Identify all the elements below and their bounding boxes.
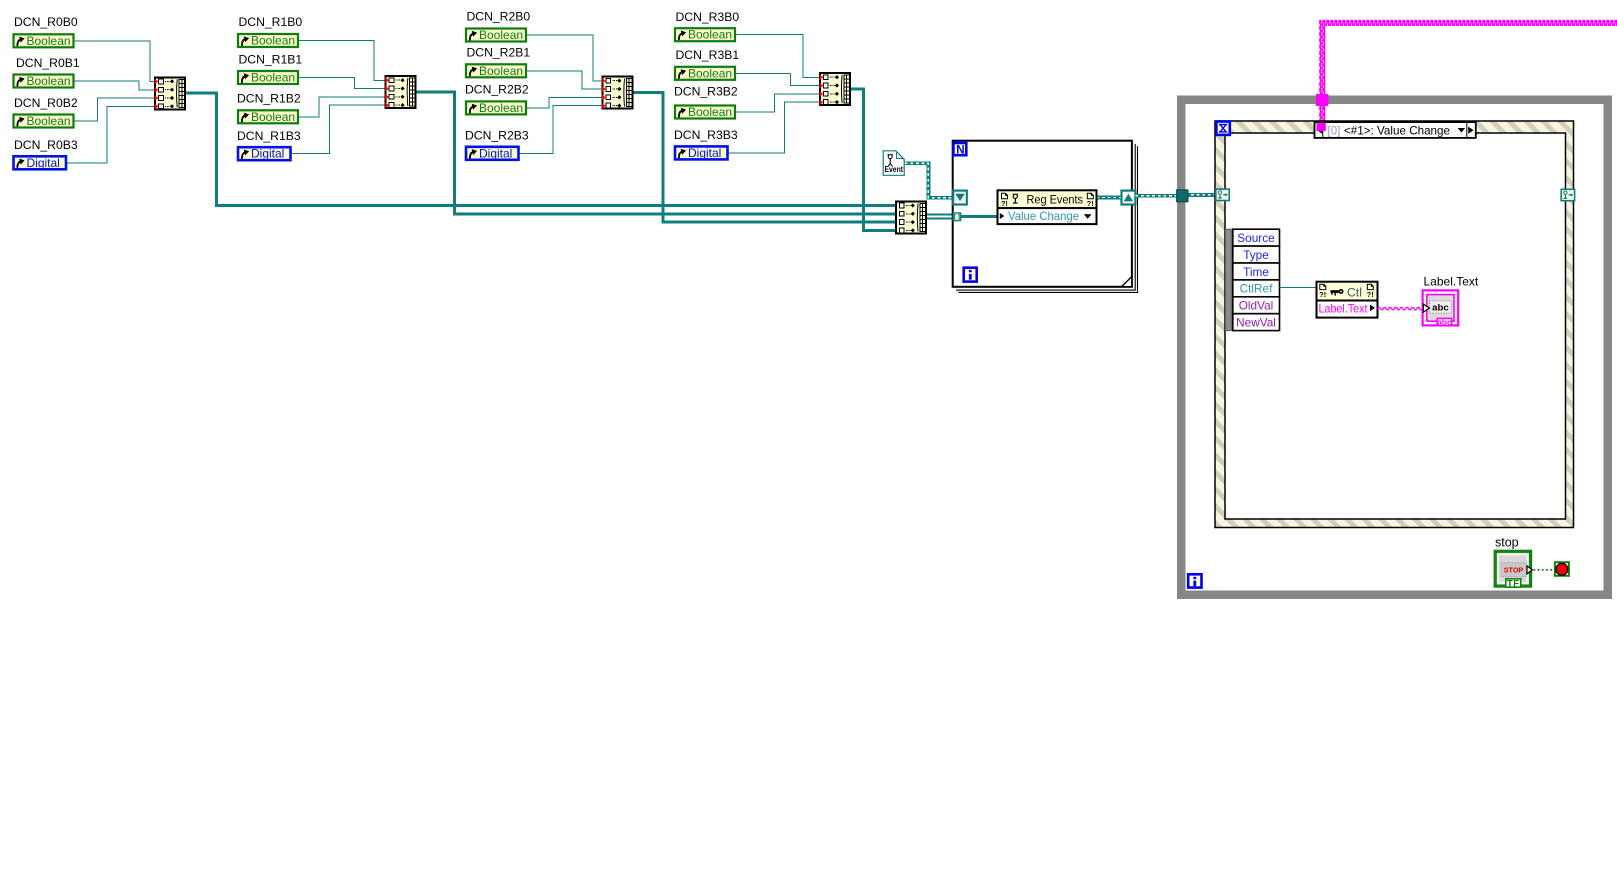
- svg-text:Time: Time: [1243, 265, 1269, 279]
- svg-text:Boolean: Boolean: [27, 74, 71, 88]
- digital terminal DCN_R2B3: [466, 146, 519, 160]
- boolean terminal DCN_R3B0: [675, 28, 735, 42]
- svg-text:<#1>: Value Change: <#1>: Value Change: [1344, 124, 1450, 137]
- svg-text:STOP: STOP: [1504, 567, 1524, 574]
- svg-text:OldVal: OldVal: [1239, 299, 1274, 313]
- for loop i terminal: [964, 268, 977, 282]
- svg-text:[0]: [0]: [1328, 124, 1341, 137]
- boolean terminal DCN_R2B2: [466, 101, 526, 115]
- svg-text:abc: abc: [1437, 317, 1452, 327]
- svg-text:NewVal: NewVal: [1236, 316, 1276, 330]
- svg-text:stop: stop: [1495, 536, 1519, 550]
- while loop i terminal: [1188, 574, 1201, 587]
- svg-text:DCN_R1B0: DCN_R1B0: [239, 15, 303, 29]
- svg-text:CtlRef: CtlRef: [1240, 282, 1273, 296]
- wire DCN_R0B1 to build array 1: [74, 81, 155, 90]
- dynamic event terminal right: [1561, 189, 1574, 200]
- wire DCN_R1B3 to build array 2: [291, 105, 385, 154]
- wire DCN_R3B2 to build array 4: [735, 94, 819, 112]
- dynamic event terminal left: [1216, 189, 1229, 200]
- property node Ctl: [1317, 282, 1378, 318]
- wire DCN_R3B1 to build array 4: [735, 73, 819, 85]
- wire CtlRef to property node: [1280, 287, 1317, 289]
- wire DCN_R1B0 to build array 2: [298, 41, 385, 81]
- svg-text:DCN_R3B1: DCN_R3B1: [676, 48, 740, 62]
- svg-text:Reg Events: Reg Events: [1027, 193, 1084, 207]
- svg-text:DCN_R2B1: DCN_R2B1: [467, 46, 531, 60]
- svg-text:Boolean: Boolean: [251, 110, 295, 124]
- wire array tunnel to reg events: [961, 215, 998, 218]
- svg-text:Boolean: Boolean: [251, 71, 295, 85]
- svg-text:DCN_R1B1: DCN_R1B1: [239, 53, 303, 67]
- wire DCN_R2B1 to build array 3: [526, 71, 601, 89]
- boolean terminal DCN_R0B2: [14, 114, 74, 128]
- svg-text:DCN_R3B2: DCN_R3B2: [674, 85, 738, 99]
- for loop stacked frame: [953, 141, 1138, 293]
- tunnel event refnum out (up arrow): [1122, 191, 1136, 205]
- svg-text:DCN_R2B3: DCN_R2B3: [465, 129, 529, 143]
- wire DCN_R1B2 to build array 2: [298, 97, 385, 117]
- svg-text:Boolean: Boolean: [688, 105, 732, 119]
- for loop N terminal: [953, 143, 966, 156]
- svg-text:Digital: Digital: [251, 147, 284, 161]
- wire array 3 bus: [633, 93, 895, 223]
- wire dashed reg events out: [1097, 196, 1122, 200]
- boolean terminal DCN_R1B0: [238, 34, 298, 48]
- boolean terminal DCN_R3B2: [675, 105, 735, 119]
- build array node 1: [155, 77, 185, 109]
- event data node: [1225, 229, 1279, 330]
- svg-text:Source: Source: [1237, 231, 1275, 245]
- boolean terminal DCN_R1B1: [238, 71, 298, 85]
- wire wavy magenta property to indicator: [1378, 307, 1423, 310]
- svg-text:Boolean: Boolean: [479, 64, 523, 78]
- digital terminal DCN_R1B3: [238, 147, 291, 161]
- wire DCN_R3B3 to build array 4: [728, 102, 819, 153]
- svg-text:Label.Text: Label.Text: [1319, 302, 1369, 316]
- wire DCN_R2B2 to build array 3: [526, 97, 601, 108]
- digital terminal DCN_R3B3: [675, 146, 728, 160]
- wire 2D array out of build array 5: [927, 213, 953, 219]
- svg-text:abc: abc: [1432, 302, 1449, 313]
- wire magenta control refnum vertical: [1319, 21, 1325, 123]
- tunnel event refnum in (down arrow): [953, 191, 967, 205]
- svg-text:Value Change: Value Change: [1008, 209, 1079, 223]
- wire DCN_R0B2 to build array 1: [74, 98, 155, 121]
- svg-text:Boolean: Boolean: [479, 28, 523, 42]
- wire array 4 bus: [851, 89, 895, 230]
- boolean terminal DCN_R0B0: [14, 34, 74, 48]
- wire event refnum dashed from Event constant to for loop: [905, 163, 998, 198]
- wire DCN_R0B3 to build array 1: [67, 106, 155, 162]
- wire array 2 bus: [417, 92, 895, 214]
- wire dashed into event structure dynamic terminal: [1186, 193, 1219, 197]
- boolean terminal DCN_R3B1: [675, 66, 735, 80]
- wire DCN_R2B3 to build array 3: [519, 106, 601, 154]
- build array node 4: [820, 73, 850, 105]
- svg-text:DCN_R0B1: DCN_R0B1: [16, 56, 80, 70]
- timeout hourglass terminal: [1216, 122, 1229, 135]
- boolean terminal DCN_R0B1: [14, 74, 74, 88]
- svg-text:DCN_R3B3: DCN_R3B3: [674, 128, 738, 142]
- svg-text:DCN_R1B3: DCN_R1B3: [237, 129, 301, 143]
- svg-text:Boolean: Boolean: [688, 28, 732, 42]
- boolean terminal DCN_R2B1: [466, 64, 526, 78]
- build array node 3: [602, 77, 632, 109]
- svg-text:DCN_R0B3: DCN_R0B3: [14, 138, 78, 152]
- wire DCN_R2B0 to build array 3: [526, 35, 601, 81]
- digital terminal DCN_R0B3: [14, 156, 67, 170]
- svg-text:DCN_R0B0: DCN_R0B0: [14, 15, 78, 29]
- svg-text:Digital: Digital: [27, 156, 60, 170]
- boolean terminal DCN_R2B0: [466, 28, 526, 42]
- wire dashed for loop to while loop: [1135, 194, 1177, 198]
- svg-text:Boolean: Boolean: [479, 101, 523, 115]
- svg-text:DCN_R0B2: DCN_R0B2: [14, 96, 78, 110]
- svg-text:Digital: Digital: [688, 146, 721, 160]
- svg-text:Boolean: Boolean: [688, 66, 732, 80]
- svg-text:DCN_R1B2: DCN_R1B2: [237, 92, 301, 106]
- svg-text:TF: TF: [1507, 577, 1520, 588]
- svg-text:DCN_R2B0: DCN_R2B0: [467, 10, 531, 24]
- tunnel auto-index array in: [953, 213, 960, 221]
- wire magenta control refnum horizontal: [1319, 20, 1617, 26]
- build array node 2: [386, 76, 416, 108]
- wire DCN_R3B0 to build array 4: [735, 35, 819, 78]
- svg-text:Type: Type: [1243, 248, 1269, 262]
- svg-text:Digital: Digital: [479, 146, 512, 160]
- event structure border: [1215, 121, 1574, 528]
- while loop border: [1177, 96, 1612, 600]
- svg-text:DCN_R2B2: DCN_R2B2: [465, 83, 529, 97]
- svg-text:Label.Text: Label.Text: [1424, 275, 1479, 289]
- register for events node Reg Events: [998, 190, 1097, 224]
- tunnel event refnum on while loop border: [1177, 190, 1188, 202]
- svg-text:N: N: [956, 144, 964, 156]
- svg-text:Ctl: Ctl: [1347, 285, 1362, 299]
- build array node 5 merge: [896, 201, 926, 233]
- tunnel magenta on event structure header: [1316, 123, 1325, 131]
- event structure header: [1315, 122, 1476, 138]
- wire DCN_R1B1 to build array 2: [298, 78, 385, 89]
- svg-text:Boolean: Boolean: [27, 114, 71, 128]
- stop button terminal: [1495, 551, 1532, 588]
- loop condition terminal: [1555, 562, 1569, 576]
- svg-text:Boolean: Boolean: [27, 34, 71, 48]
- wire DCN_R0B0 to build array 1: [74, 41, 155, 82]
- user event constant Event: [883, 151, 904, 176]
- wire dotted stop to condition: [1534, 569, 1554, 571]
- wire array 1 bus: [186, 93, 895, 205]
- svg-text:Event: Event: [885, 165, 904, 174]
- tunnel magenta on while loop border: [1316, 94, 1328, 106]
- svg-text:DCN_R3B0: DCN_R3B0: [676, 10, 740, 24]
- string indicator Label.Text: [1423, 290, 1459, 327]
- boolean terminal DCN_R1B2: [238, 110, 298, 124]
- svg-text:Boolean: Boolean: [251, 34, 295, 48]
